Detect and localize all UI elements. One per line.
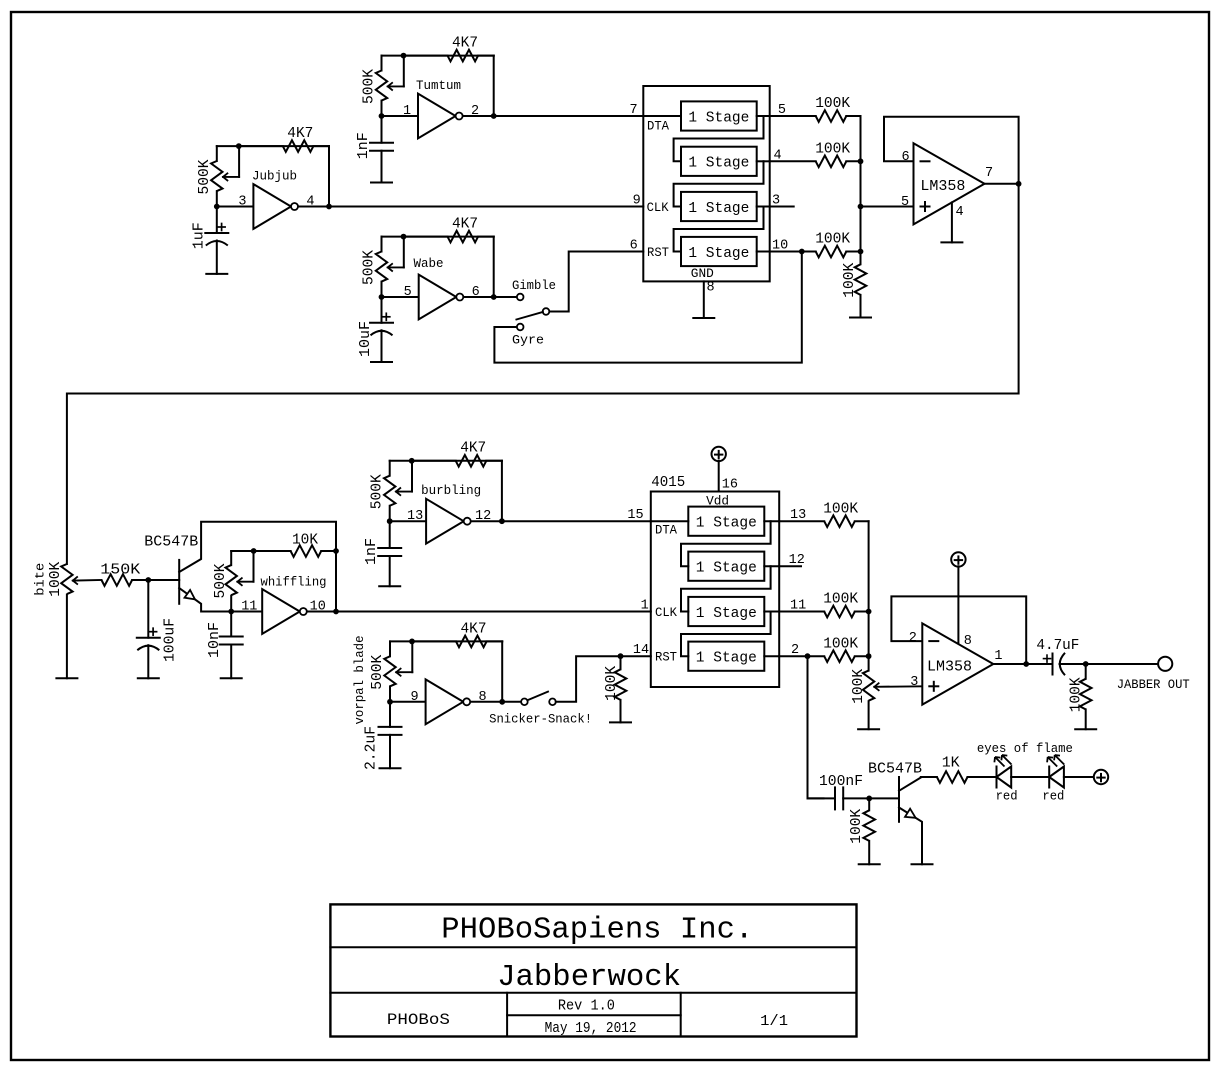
svg-text:CLK: CLK (655, 605, 677, 620)
wire Jubjub inverter input (217, 206, 254, 208)
node bus row4 (top) (858, 249, 864, 255)
svg-text:Snicker-Snack!: Snicker-Snack! (489, 712, 592, 726)
pin 6 label Wabe (472, 285, 480, 300)
wire DTA pin into stage 1 (top IC) (643, 115, 681, 117)
pin 9 label vorpal blade (411, 690, 419, 705)
svg-text:10uF: 10uF (357, 321, 374, 357)
power supply Vdd (bottom IC) (712, 447, 726, 461)
svg-text:5: 5 (901, 195, 909, 210)
wire 4K7 left Jubjub (239, 145, 283, 147)
svg-text:10K: 10K (292, 532, 318, 549)
wire stage chain 3-4 (top IC) (674, 207, 764, 252)
node Jubjub input junction (214, 204, 220, 210)
potentiometer 500K Jubjub (211, 146, 239, 206)
svg-text:1 Stage: 1 Stage (688, 155, 749, 172)
svg-text:100nF: 100nF (819, 773, 863, 790)
pin 3 label U2 (910, 675, 918, 690)
node Tumtum input junction (379, 113, 385, 119)
inverter Jubjub pins 3/4 (253, 184, 298, 229)
svg-text:100K: 100K (815, 231, 850, 248)
node pin10 junction (top) (799, 249, 805, 255)
label 4K7 burbling (460, 440, 486, 457)
wire U2 output to cap (1026, 663, 1052, 665)
svg-text:4: 4 (955, 205, 963, 220)
pin 8 label (top IC) (707, 281, 715, 296)
ground 10nF (221, 677, 242, 679)
1 Stage box 4 (bottom IC) (688, 642, 764, 671)
resistor 100K RST pulldown (615, 656, 627, 722)
svg-text:1 Stage: 1 Stage (696, 650, 757, 667)
label CLK (top IC) (647, 200, 669, 215)
node burbling top junction (409, 458, 415, 464)
label BC547B Q2 (868, 761, 922, 778)
wire DTA pin into stage 1 (bottom IC) (651, 520, 689, 522)
svg-text:red: red (996, 789, 1018, 803)
wire pin10 to R (top row4) (770, 251, 816, 253)
wire stage 3 output (bottom IC) (764, 611, 779, 613)
wire stage 2 output (top IC) (757, 160, 770, 162)
wire cap to output node (1060, 663, 1086, 665)
wire 4K7 left Tumtum (404, 55, 448, 57)
wire pin 12 stub (bottom IC) (779, 565, 801, 567)
svg-text:1 Stage: 1 Stage (688, 200, 749, 217)
wire Jubjub inverter output (299, 206, 330, 208)
svg-text:1: 1 (403, 104, 411, 119)
label 1 Stage 2 (bottom IC) (696, 560, 757, 577)
pin 14 label (bottom IC) (633, 643, 649, 658)
label 4015 (651, 474, 685, 491)
label 100K top row1 (815, 95, 850, 112)
resistor 100K bottom row4 (824, 650, 855, 662)
label 100K RST pulldown (603, 666, 620, 701)
potentiometer 100K bottom bus (863, 671, 874, 730)
svg-text:8: 8 (964, 634, 972, 649)
svg-text:7: 7 (629, 103, 637, 118)
svg-text:4K7: 4K7 (452, 35, 478, 52)
svg-text:9: 9 (411, 690, 419, 705)
wire Wabe output to Gimble (494, 296, 517, 298)
wire stage chain 3-4 (bottom IC) (681, 612, 771, 657)
wire pin 8 supply U2 (957, 566, 959, 644)
label name burbling (421, 484, 481, 498)
label LM358 U2 (927, 659, 972, 676)
svg-text:Jubjub: Jubjub (252, 170, 297, 184)
node vorpal blade top junction (409, 639, 415, 645)
wire pin 3 stub (top IC) (770, 206, 794, 208)
resistor 4K7 Jubjub (283, 140, 329, 152)
wire vorpal output to switch (502, 701, 521, 703)
svg-text:9: 9 (633, 194, 641, 209)
wire stage chain 1-2 (bottom IC) (681, 521, 771, 566)
pin 15 label (bottom IC) (627, 508, 643, 523)
label Snicker-Snack! (489, 712, 592, 726)
label GND (top IC) (691, 266, 714, 281)
label Jabberwock (497, 961, 681, 995)
svg-text:4.7uF: 4.7uF (1036, 637, 1079, 654)
wire feedback pin2 U2 (891, 596, 1026, 664)
resistor 4K7 vorpal blade (456, 636, 502, 648)
pin 1 label U2 (994, 649, 1002, 664)
pin 12 label (bottom IC) (789, 553, 805, 568)
svg-text:1 Stage: 1 Stage (696, 605, 757, 622)
label 4.7uF (1036, 637, 1079, 654)
power supply U2 pin 8 (951, 552, 965, 566)
wire whiffling inverter output (307, 611, 336, 613)
label 500K Wabe (361, 250, 378, 285)
svg-text:8: 8 (707, 281, 715, 296)
resistor 4K7 Wabe (448, 231, 494, 243)
svg-text:BC547B: BC547B (868, 761, 922, 778)
label 1K (942, 755, 960, 772)
wire R to bus (top row4) (846, 251, 860, 253)
label 4K7 Jubjub (287, 125, 313, 142)
wire feedback pin6 (884, 117, 1019, 184)
wire bite wiper to 150K (73, 576, 102, 584)
label DTA (bottom IC) (655, 523, 677, 538)
label 100K bottom row4 (823, 636, 858, 653)
svg-text:500K: 500K (212, 564, 229, 599)
svg-text:3: 3 (910, 675, 918, 690)
node bus row2 (top) (858, 158, 864, 164)
label bite (34, 563, 48, 596)
label 1 Stage 1 (bottom IC) (696, 515, 757, 532)
1 Stage box 1 (bottom IC) (688, 507, 764, 536)
svg-text:100K: 100K (850, 669, 867, 704)
pin 13 label (bottom IC) (790, 508, 806, 523)
wire pin5 to R (top row1) (770, 115, 816, 117)
op-amp U1 minus sign (921, 160, 930, 162)
svg-text:500K: 500K (369, 474, 386, 509)
label red D2 (1042, 789, 1064, 803)
title block vertical right (680, 993, 682, 1037)
title block divider 2 (330, 992, 856, 994)
wire stage 1 output (top IC) (757, 115, 770, 117)
svg-text:PHOBoS: PHOBoS (387, 1011, 450, 1029)
wire pin4 to R (top row2) (770, 160, 816, 162)
capacitor C 1nF burbling (378, 521, 401, 586)
node burbling input junction (387, 518, 393, 524)
node U1 output junction (1016, 181, 1022, 187)
svg-text:5: 5 (404, 285, 412, 300)
svg-text:100K: 100K (848, 809, 865, 844)
inverter burbling pins 13/12 (426, 499, 471, 544)
pin 5 label Wabe (404, 285, 412, 300)
resistor 4K7 Tumtum (448, 50, 494, 62)
wire to JABBER OUT (1086, 663, 1158, 665)
wire node to Q2 base (869, 797, 899, 799)
wire vorpal blade feedback top (390, 641, 502, 656)
label 100uF (161, 618, 178, 662)
resistor 100K to ground (top bus) (855, 264, 867, 317)
wire Jubjub feedback top (217, 146, 329, 161)
ground 100uF (138, 677, 159, 679)
wire LED2 to supply (1064, 776, 1094, 778)
wire Tumtum feedback top (382, 56, 494, 71)
IC shift register body (top) (643, 86, 769, 281)
label 1 Stage 4 (bottom IC) (696, 650, 757, 667)
potentiometer 500K vorpal blade (384, 641, 412, 701)
label BC547B Q1 (144, 533, 198, 550)
svg-text:100K: 100K (603, 666, 620, 701)
wire R to bus (bottom row4) (855, 655, 869, 657)
label 4K7 Wabe (452, 216, 478, 233)
resistor 1K (937, 771, 968, 783)
wire LED1 to LED2 (1011, 776, 1049, 778)
label 4K7 Tumtum (452, 35, 478, 52)
svg-text:3: 3 (238, 195, 246, 210)
wire Q1 emitter (179, 588, 231, 612)
ground top bus resistor (850, 317, 871, 319)
pin 12 label burbling (475, 509, 491, 524)
ground RST pulldown (610, 721, 631, 723)
svg-text:eyes of flame: eyes of flame (977, 742, 1073, 756)
capacitor C 10nF (220, 612, 243, 679)
label 1 Stage 1 (top IC) (688, 109, 749, 126)
switch Snicker-Snack terminal B (549, 699, 556, 706)
inverter vorpal blade pins 9/8 (426, 679, 471, 724)
label 100nF (819, 773, 863, 790)
label 10uF Wabe (357, 321, 374, 357)
label 500K Jubjub (196, 160, 213, 195)
node RST pulldown junction (618, 653, 624, 659)
svg-text:500K: 500K (361, 250, 378, 285)
svg-text:red: red (1042, 789, 1064, 803)
svg-text:500K: 500K (361, 69, 378, 104)
IC 4015 body (bottom) (651, 492, 779, 688)
wire switch to RST pin14 (556, 656, 651, 702)
switch Snicker-Snack terminal A (521, 699, 528, 706)
potentiometer bite 100K (61, 564, 72, 678)
svg-text:RST: RST (655, 650, 677, 665)
node whiffling input junction (228, 609, 234, 615)
label 100K bottom row3 (823, 591, 858, 608)
terminal Gimble (517, 294, 524, 301)
svg-text:DTA: DTA (647, 118, 669, 133)
svg-text:500K: 500K (369, 655, 386, 690)
pin 3 label (top IC) (772, 193, 780, 208)
svg-text:DTA: DTA (655, 523, 677, 538)
resistor 100K bottom row3 (824, 606, 855, 618)
svg-text:bite: bite (34, 563, 48, 596)
pin 6 label U1 (901, 150, 909, 165)
wire whiffling output to CLK pin1 (336, 611, 651, 613)
label red D1 (996, 789, 1018, 803)
switch Gyre terminal A (517, 324, 524, 331)
label 100K top row2 (815, 140, 850, 157)
node whiffling top junction (251, 548, 257, 554)
wire Wabe output vertical (493, 237, 495, 297)
svg-text:1 Stage: 1 Stage (696, 515, 757, 532)
resistor 4K7 burbling (456, 455, 502, 467)
pin 8 label vorpal blade (479, 690, 487, 705)
svg-text:16: 16 (722, 477, 738, 492)
op-amp U2 minus sign (929, 640, 938, 642)
wire vorpal blade inverter input (390, 701, 426, 703)
capacitor C 100nF (808, 787, 844, 809)
pin 5 label U1 (901, 195, 909, 210)
svg-text:150K: 150K (100, 562, 140, 579)
wire Tumtum inverter input (382, 115, 419, 117)
pin 2 label Tumtum (471, 104, 479, 119)
label name Tumtum (416, 79, 461, 93)
svg-text:BC547B: BC547B (144, 533, 198, 550)
inverter Wabe pins 5/6 (419, 275, 464, 320)
switch Snicker-Snack lever (527, 692, 548, 701)
ground output load (1075, 728, 1096, 730)
svg-text:Tumtum: Tumtum (416, 79, 461, 93)
label 1 Stage 3 (top IC) (688, 200, 749, 217)
wire stage chain 1-2 (top IC) (674, 116, 764, 161)
title block frame (330, 904, 856, 1036)
pin 4 label Jubjub (306, 195, 314, 210)
wire pin2 to R (bottom row4) (779, 655, 824, 657)
potentiometer 500K Wabe (376, 237, 404, 297)
resistor 100K top row4 (816, 246, 847, 258)
svg-text:4015: 4015 (651, 474, 685, 491)
node vorpal blade output junction (499, 699, 505, 705)
node vorpal blade input junction (387, 699, 393, 705)
wire 150K to node (132, 579, 148, 581)
wire 4K7 left Wabe (404, 236, 448, 238)
label Rev 1.0 (558, 998, 615, 1015)
svg-text:6: 6 (901, 150, 909, 165)
node Wabe input junction (379, 294, 385, 300)
wire node to Q1 base (148, 579, 179, 581)
op-amp U2 LM358 (922, 623, 993, 704)
1 Stage box 2 (top IC) (681, 147, 757, 176)
pin 2 label (bottom IC) (791, 643, 799, 658)
label 1 Stage 4 (top IC) (688, 245, 749, 262)
label name Jubjub (252, 170, 297, 184)
capacitor C 10uF Wabe polarized (370, 297, 393, 362)
svg-text:500K: 500K (196, 160, 213, 195)
LED D1 red (997, 767, 1012, 788)
1 Stage box 3 (bottom IC) (688, 597, 764, 626)
svg-text:1nF: 1nF (355, 132, 372, 159)
svg-text:11: 11 (241, 600, 257, 615)
switch Gyre terminal B (543, 308, 550, 315)
label PHOBoSapiens Inc. (441, 913, 753, 947)
wire pin2 node to 100nF (808, 656, 824, 798)
label 1/1 (760, 1013, 788, 1030)
label 1nF burbling (363, 538, 380, 565)
node Jubjub output junction (326, 204, 332, 210)
ground burbling 1nF (379, 585, 400, 587)
label 10nF (206, 622, 223, 658)
node bus row3 (bottom) (866, 609, 872, 615)
wire Tumtum output to DTA pin7 (494, 115, 644, 117)
potentiometer 500K whiffling (226, 551, 254, 612)
wire vorpal blade inverter output (471, 701, 503, 703)
label 500K vorpal blade (369, 655, 386, 690)
svg-text:4K7: 4K7 (460, 440, 486, 457)
1 Stage box 4 (top IC) (681, 237, 757, 266)
wire whiffling inverter input (231, 611, 262, 613)
op-amp U1 LM358 (914, 143, 985, 224)
svg-text:100K: 100K (841, 263, 858, 298)
label Vdd (bottom IC) (706, 493, 729, 508)
wire burbling output to DTA pin15 (502, 520, 651, 522)
svg-text:15: 15 (627, 508, 643, 523)
svg-text:4K7: 4K7 (461, 620, 487, 637)
label 1uF Jubjub (191, 222, 208, 249)
pin 3 label Jubjub (238, 195, 246, 210)
label 4K7 vorpal blade (461, 620, 487, 637)
svg-text:Jabberwock: Jabberwock (497, 961, 681, 995)
label RST (top IC) (647, 245, 669, 260)
node 10K feedback junction (333, 548, 339, 554)
LED D2 arrows (1047, 755, 1064, 767)
wire vorpal blade output vertical (501, 641, 503, 701)
label whiffling (261, 576, 327, 590)
svg-text:whiffling: whiffling (261, 576, 327, 590)
node Wabe top junction (401, 234, 407, 240)
transistor Q2 BC547B base bar (898, 777, 900, 822)
svg-text:100uF: 100uF (161, 618, 178, 662)
svg-text:Rev 1.0: Rev 1.0 (558, 998, 615, 1015)
wire 10K left (254, 550, 291, 552)
wire Vdd pin 16 (718, 461, 720, 492)
label 1nF Tumtum (355, 132, 372, 159)
svg-text:7: 7 (985, 166, 993, 181)
svg-text:100K: 100K (823, 636, 858, 653)
wire U1 output to bottom section (67, 184, 1019, 564)
transistor Q1 BC547B base bar (178, 560, 180, 604)
ground Wabe 10uF (371, 361, 392, 363)
wire 4K7 left vorpal blade (412, 640, 456, 642)
svg-text:LM358: LM358 (920, 178, 965, 195)
pin 8 label U2 (964, 634, 972, 649)
node Tumtum output junction (491, 113, 497, 119)
capacitor C 100uF polarized (137, 580, 160, 678)
ground Q2 pulldown (859, 863, 880, 865)
svg-text:13: 13 (407, 509, 423, 524)
LED D2 red (1049, 767, 1064, 788)
node Tumtum top junction (401, 53, 407, 59)
label 100K bottom pot (850, 669, 867, 704)
label CLK (bottom IC) (655, 605, 677, 620)
svg-text:1 Stage: 1 Stage (688, 245, 749, 262)
wire Q1 collector (179, 522, 336, 612)
potentiometer 500K Tumtum (376, 56, 404, 116)
wire bus to pin5 (+ input) (861, 206, 914, 208)
wire stage chain 2-3 (top IC) (674, 161, 764, 206)
label eyes of flame (977, 742, 1073, 756)
wire R to bus (top row2) (846, 160, 860, 162)
svg-text:LM358: LM358 (927, 659, 972, 676)
pin 1 label (bottom IC) (641, 599, 649, 614)
ground Q2 emitter (912, 863, 933, 865)
ground 2.2uF (380, 767, 401, 769)
node base node (145, 577, 151, 583)
inverter whiffling pins 11/10 (262, 589, 307, 634)
svg-text:Gimble: Gimble (512, 279, 556, 293)
svg-text:1 Stage: 1 Stage (688, 109, 749, 126)
wire Wabe inverter output (464, 296, 494, 298)
label vorpal blade (353, 636, 367, 725)
node Jubjub top junction (236, 143, 242, 149)
wire burbling output vertical (501, 461, 503, 521)
svg-text:1uF: 1uF (191, 222, 208, 249)
wire summing bus (bottom) (868, 521, 870, 670)
svg-text:10nF: 10nF (206, 622, 223, 658)
wire Q2 collector (899, 777, 937, 791)
pin 11 label (bottom IC) (790, 599, 806, 614)
wire stage chain 2-3 (bottom IC) (681, 566, 771, 611)
svg-text:2: 2 (909, 631, 917, 646)
node burbling output junction (499, 518, 505, 524)
resistor 100K output load (1080, 664, 1092, 729)
